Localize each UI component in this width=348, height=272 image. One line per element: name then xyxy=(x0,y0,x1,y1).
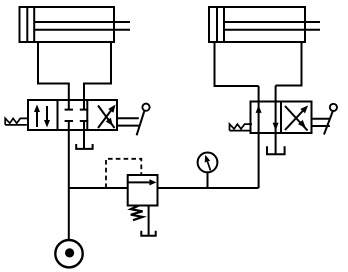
relief valve RV1 drain line xyxy=(148,206,150,236)
valve V2 return spring xyxy=(230,124,253,131)
wire valve V1 port P down to pump xyxy=(68,121,70,241)
valve V1 center position blocked port T top-left xyxy=(65,100,73,110)
supply bus wire right segment xyxy=(157,187,258,189)
pump P1 xyxy=(55,240,82,267)
tank symbol under relief valve RV1 xyxy=(141,231,155,236)
wire C2 rod-end to valve V2 port B xyxy=(276,42,302,86)
valve V1 return spring xyxy=(5,118,28,125)
valve V2 manual lever xyxy=(312,118,330,120)
cylinder C2 rod xyxy=(224,21,320,23)
wire C1 rod-end to valve V1 port B xyxy=(84,42,111,100)
supply bus wire left segment xyxy=(69,187,128,189)
gauge G1 needle xyxy=(207,160,211,171)
valve V2 body xyxy=(251,102,312,134)
valve V1 left position up arrow xyxy=(36,109,38,127)
valve V2 down arrowhead xyxy=(273,123,279,131)
cylinder C1 rod xyxy=(34,21,130,23)
relief valve RV1 body xyxy=(128,175,158,206)
valve V2 up arrowhead xyxy=(256,105,262,113)
valve V2 flow line B-T (through left position) xyxy=(275,86,277,154)
tank symbol under valve V1 xyxy=(76,144,92,149)
cylinder C2 piston xyxy=(216,7,218,42)
valve V1 exhaust line xyxy=(83,121,85,149)
cylinder C1 body xyxy=(20,7,115,42)
gauge G1 stem wire xyxy=(207,172,209,188)
valve V1 manual lever xyxy=(117,117,139,119)
valve V2 right position crossed arrow up xyxy=(285,109,305,130)
relief valve RV1 spring xyxy=(131,206,143,221)
relief valve RV1 flow arrow xyxy=(129,181,151,183)
valve V2 right position crossed arrow down xyxy=(285,106,308,131)
valve V1 center position blocked port T bottom-right xyxy=(80,120,88,122)
valve V1 center position blocked port T bottom-left xyxy=(65,120,73,122)
pressure gauge G1 xyxy=(198,153,218,173)
valve V1 right position crossed arrow down xyxy=(98,106,115,129)
wire C1 cap-end to valve V1 port A xyxy=(38,42,69,100)
relief valve RV1 pilot line (dashed) xyxy=(106,159,141,188)
valve V1 right position crossed arrow up xyxy=(98,109,113,129)
valve V1 center position blocked port T top-right xyxy=(80,100,88,110)
valve V1 left position down arrow xyxy=(46,106,48,122)
valve V2 flow line P-A (through left position) xyxy=(258,86,260,188)
cylinder C1 piston xyxy=(26,7,28,42)
cylinder C2 body xyxy=(209,7,305,42)
wire C2 cap-end to valve V2 port A xyxy=(215,42,259,86)
tank symbol under valve V2 xyxy=(267,146,285,154)
valve V1 body xyxy=(28,100,117,130)
